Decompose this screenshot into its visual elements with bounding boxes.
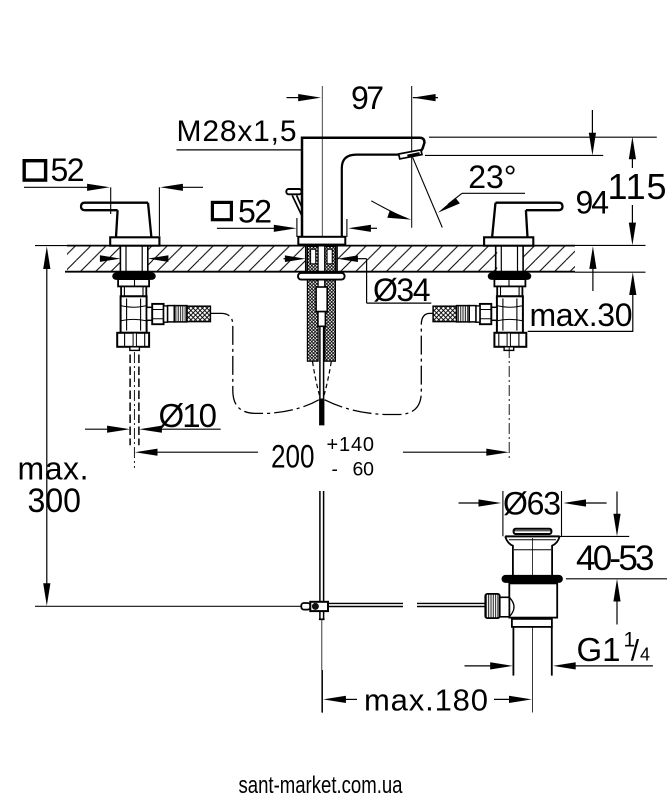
tailpipe: [512, 627, 514, 676]
rod extension centerline to max.180: [321, 620, 323, 713]
svg-text:max.180: max.180: [364, 683, 488, 718]
dimension 40-53 (basin thickness range): [576, 492, 655, 625]
countertop slab hatched cross-section: [65, 246, 575, 272]
plug cap: [514, 529, 552, 534]
svg-text:52: 52: [238, 194, 272, 230]
aerator height reference line: [425, 154, 603, 156]
lever rod end sleeve: [301, 603, 310, 610]
left hose routing dash-dot sweep: [211, 313, 319, 413]
flange body: [505, 535, 560, 537]
bottom compression nut: [117, 333, 149, 347]
lock nut: [118, 279, 149, 286]
svg-text:115: 115: [608, 166, 667, 207]
dimension 94 (aerator height): [576, 110, 610, 291]
handle lever: [81, 203, 148, 211]
label 23 deg with leader arrow: [438, 159, 525, 213]
slab top reference extension lines (left and right): [35, 245, 67, 247]
center threaded studs below slab: [307, 280, 335, 361]
svg-text:M28x1,5: M28x1,5: [177, 115, 297, 148]
svg-text:Ø10: Ø10: [159, 397, 218, 434]
svg-text:52: 52: [51, 152, 85, 188]
svg-text:Ø34: Ø34: [373, 272, 431, 308]
pop-up rod (lower drawing): [319, 491, 325, 619]
shank hole lines in slab: [119, 246, 121, 271]
dimension O63 (flange diameter): [459, 486, 607, 537]
svg-text:300: 300: [28, 482, 82, 520]
pop-up rod housing: [316, 287, 327, 326]
dimension max.180 (rod offset): [322, 670, 531, 718]
horizontal link rod to drain (with break): [328, 603, 485, 606]
left handle and valve assembly: [81, 203, 210, 351]
left pipe centerline: [133, 352, 135, 468]
compression nut: [152, 304, 163, 324]
dimension square 52 left handle: [24, 152, 203, 236]
side port connector: [500, 597, 510, 617]
basin bottom reference line: [566, 578, 667, 580]
bottom collar: [512, 619, 552, 627]
pop-up rod (upper drawing): [319, 326, 324, 425]
washer ring: [164, 306, 168, 322]
flange top reference line: [560, 535, 630, 537]
dimension O10 (supply pipe): [85, 397, 221, 434]
braided hose: [187, 306, 211, 321]
svg-text:Ø63: Ø63: [503, 486, 561, 522]
valve hex body: [121, 296, 147, 333]
spout body: [301, 138, 425, 246]
23 degree slant line: [413, 157, 443, 227]
o-ring seal: [502, 575, 563, 583]
svg-text:+140: +140: [327, 434, 375, 456]
svg-text:max.30: max.30: [530, 297, 633, 333]
svg-text:G1: G1: [577, 631, 621, 668]
valve shank: [121, 286, 146, 296]
dimension 200 +140/-60 (hose length): [135, 434, 509, 481]
svg-text:23°: 23°: [468, 159, 516, 195]
svg-text:97: 97: [351, 80, 384, 116]
svg-text:/: /: [631, 635, 640, 668]
dimension max.30 (deck thickness): [528, 272, 637, 333]
handle body: [116, 203, 151, 238]
waste body: [509, 583, 557, 617]
knurled adjuster nut: [485, 594, 499, 618]
drain pop-up waste assembly: [485, 529, 563, 676]
dashed vertical supply pipe below left valve: [130, 355, 139, 446]
right hose routing dash-dot sweep: [325, 313, 433, 414]
dimension 115 (total height): [608, 137, 667, 246]
svg-text:60: 60: [353, 459, 375, 481]
spout centerline: [321, 86, 323, 246]
23 degree swivel arc with arrow: [371, 201, 411, 220]
escutcheon base: [110, 237, 159, 245]
spout aerator (23 deg outlet): [399, 150, 422, 159]
hose funnel dashed curves under studs: [313, 362, 332, 397]
svg-text:sant-market.com.ua: sant-market.com.ua: [239, 772, 404, 799]
horizontal lever reference line (max.300 datum): [35, 605, 302, 607]
spout pop-up knob lever: [286, 189, 302, 215]
drain centerline: [532, 538, 534, 713]
svg-text:94: 94: [576, 184, 610, 220]
dimension 97 (spout reach): [287, 80, 439, 116]
hose ferrule with knurl: [168, 306, 175, 322]
svg-text:4: 4: [640, 645, 650, 665]
spout base plate: [298, 237, 345, 245]
center threaded studs in slab: [307, 246, 335, 271]
center washer below slab: [298, 273, 345, 280]
svg-text:200: 200: [271, 439, 315, 475]
dimension square 52 spout base: [212, 194, 377, 238]
o-ring below slab: [113, 273, 155, 279]
spout aerator axis extension line: [411, 86, 413, 228]
svg-text:-: -: [332, 460, 338, 481]
svg-text:40-53: 40-53: [576, 539, 655, 578]
center mounting hole edges in slab: [306, 246, 337, 271]
outlet neck: [147, 307, 153, 320]
rod clamp block with screw: [310, 602, 328, 611]
hole diameter arrows at left valve: [100, 255, 168, 262]
spout top reference line: [429, 136, 657, 138]
right handle and valve assembly (mirror of left): [433, 203, 562, 351]
dimension O34 (hole diameter) with leader: [284, 255, 432, 308]
slab bottom reference extension line right: [575, 271, 646, 273]
right valve centerline: [508, 347, 510, 460]
label M28x1,5 (thread) with leader: [177, 115, 302, 150]
tail stub: [130, 347, 140, 351]
dimension max.300 (clearance below deck): [18, 246, 89, 606]
label G1 1/4 (thread size) with arrows: [465, 629, 653, 670]
